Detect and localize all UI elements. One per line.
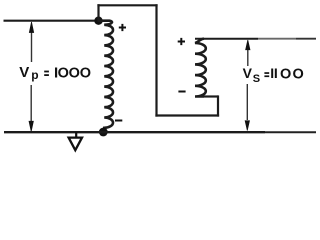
- arrow Vs down: [246, 84, 248, 120]
- label Vp = 1000: [19, 64, 91, 82]
- ground symbol: [75, 132, 77, 138]
- label - primary bottom: [115, 120, 122, 122]
- wire top-right horizontal: [195, 38, 258, 40]
- arrow Vp down: [30, 85, 32, 122]
- arrow Vs up: [247, 46, 249, 66]
- arrow Vp up: [31, 30, 33, 62]
- svg-text:V: V: [243, 65, 253, 81]
- wire horizontal under secondary: [157, 114, 219, 116]
- node bottom junction: [99, 128, 108, 137]
- svg-text:V: V: [19, 64, 29, 81]
- label - secondary bottom: [178, 91, 185, 93]
- svg-text:II: II: [270, 65, 277, 81]
- wire bottom horizontal: [4, 131, 265, 133]
- inductor secondary winding: [195, 39, 206, 97]
- svg-text:OOO: OOO: [58, 66, 91, 82]
- wire vertical drop at x=156: [155, 5, 157, 115]
- label + secondary top: [178, 38, 185, 45]
- wire lead to secondary bottom end: [204, 95, 218, 97]
- node top junction: [94, 17, 102, 25]
- svg-text:S: S: [253, 73, 260, 85]
- inductor primary winding: [99, 21, 114, 132]
- wire riser to secondary bottom: [217, 97, 219, 116]
- wire top-left horizontal: [4, 20, 99, 22]
- svg-text:OO: OO: [280, 66, 305, 82]
- label Vs = 1100: [243, 65, 305, 85]
- wire riser from top junction: [97, 5, 99, 20]
- wire top horizontal to secondary branch: [99, 4, 157, 6]
- svg-text:p: p: [31, 68, 38, 82]
- label + primary top: [119, 24, 126, 31]
